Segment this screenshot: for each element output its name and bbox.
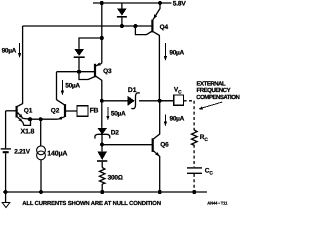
svg-text:2.21V: 2.21V: [14, 148, 30, 155]
battery 2.21V: [1, 148, 11, 150]
diode D2 (schottky down): [97, 128, 107, 135]
svg-text:X1.8: X1.8: [21, 129, 35, 136]
wire branch to left clamp diode: [79, 38, 102, 49]
transistor Q6 (NPN output): [154, 101, 160, 139]
node compensation to ground rail: [192, 190, 196, 194]
transistor Q1 (NPN dual emitter): [16, 106, 18, 118]
node Q3 base/collector tie: [77, 70, 81, 74]
node output (Vc): [158, 99, 162, 103]
svg-text:Q6: Q6: [160, 142, 169, 149]
svg-text:COMPENSATION: COMPENSATION: [196, 94, 239, 101]
resistor RC: [192, 130, 198, 145]
wire Q1 collector riser: [17, 26, 22, 106]
node Q4 base tie: [133, 24, 137, 28]
wire D2 chain anode: [101, 101, 103, 128]
current arrow 50uA first stage: [61, 80, 63, 91]
wire common emitter rail: [30, 118, 58, 120]
terminal box FB: [77, 106, 88, 117]
ground symbol: [5, 192, 7, 203]
transistor Q4 (PNP diode-connected): [151, 20, 153, 33]
arrow external compensation pointer: [201, 102, 222, 108]
svg-text:FB: FB: [90, 108, 99, 115]
wire diode cathode to Q3 base node: [78, 58, 80, 72]
wire top supply rail: [93, 2, 172, 4]
current arrow 90uA left: [18, 43, 222, 126]
ground rail: [3, 191, 207, 193]
svg-text:50µA: 50µA: [111, 111, 126, 118]
svg-text:D1: D1: [128, 87, 137, 94]
wire Q1 base to battery: [5, 111, 7, 148]
wire output node to Vc box: [160, 100, 173, 102]
svg-text:300Ω: 300Ω: [108, 174, 123, 181]
svg-text:EXTERNAL: EXTERNAL: [197, 81, 227, 88]
diode D1 (schottky, pointing right): [128, 96, 135, 106]
wire Q3 base: [57, 71, 95, 73]
node Q6 base: [100, 143, 104, 147]
svg-text:5.8V: 5.8V: [173, 0, 187, 7]
current arrow 50uA D2 branch: [107, 107, 109, 116]
current source 140uA: [37, 146, 46, 155]
wire D1 cathode to output node: [139, 100, 173, 102]
capacitor CC: [187, 167, 202, 169]
svg-text:90µA: 90µA: [169, 49, 184, 56]
svg-text:Q3: Q3: [103, 68, 112, 75]
node top rail 5.8V junction: [158, 1, 162, 5]
svg-text:Q2: Q2: [51, 108, 60, 115]
wire vertical from rail to Q3 emitter: [101, 3, 103, 63]
transistor Q2 (NPN, mirrored): [64, 104, 66, 117]
diode below D2: [97, 151, 107, 160]
svg-text:90µA: 90µA: [2, 47, 17, 54]
svg-text:AN44 • T11: AN44 • T11: [207, 201, 228, 206]
svg-text:Q4: Q4: [160, 24, 169, 31]
wire tail to current source: [40, 119, 42, 146]
wire Q2 collector riser: [57, 72, 65, 105]
node top clamp diode cathode: [120, 24, 124, 28]
svg-text:140µA: 140µA: [47, 151, 67, 158]
diode clamp top center: [121, 3, 123, 9]
node Q3 emitter branch: [100, 36, 104, 40]
node ground battery: [4, 190, 8, 194]
svg-text:Q1: Q1: [24, 108, 33, 115]
transistor Q3 (PNP diode-connected): [94, 64, 96, 77]
node D1/D2 junction: [100, 99, 104, 103]
svg-text:FREQUENCY: FREQUENCY: [197, 87, 231, 94]
wire D2 to node: [101, 135, 103, 152]
wire Q3 collector-base hook: [79, 72, 95, 80]
node top rail left junction: [100, 1, 104, 5]
current arrow 90uA Q4: [164, 43, 166, 56]
node ground Q6 emitter: [158, 190, 162, 194]
node Q1 emitters: [28, 117, 32, 121]
node ground tail: [39, 190, 43, 194]
svg-text:ALL CURRENTS SHOWN ARE AT NULL: ALL CURRENTS SHOWN ARE AT NULL CONDITION: [22, 200, 161, 207]
terminal box VC: [174, 95, 184, 105]
node ground 300ohm: [100, 190, 104, 194]
diode clamp left (anode up): [74, 49, 84, 56]
svg-text:D2: D2: [111, 129, 120, 136]
node tail current: [39, 117, 43, 121]
svg-text:50µA: 50µA: [65, 82, 80, 89]
wire Q1 collector to Q4 base: [23, 25, 136, 27]
resistor 300 ohm: [100, 168, 105, 185]
svg-text:90µA: 90µA: [170, 116, 185, 123]
wire dashed compensation branch: [184, 100, 195, 102]
wire node to D1 anode: [102, 100, 128, 102]
current arrow 90uA Q6: [164, 115, 166, 123]
